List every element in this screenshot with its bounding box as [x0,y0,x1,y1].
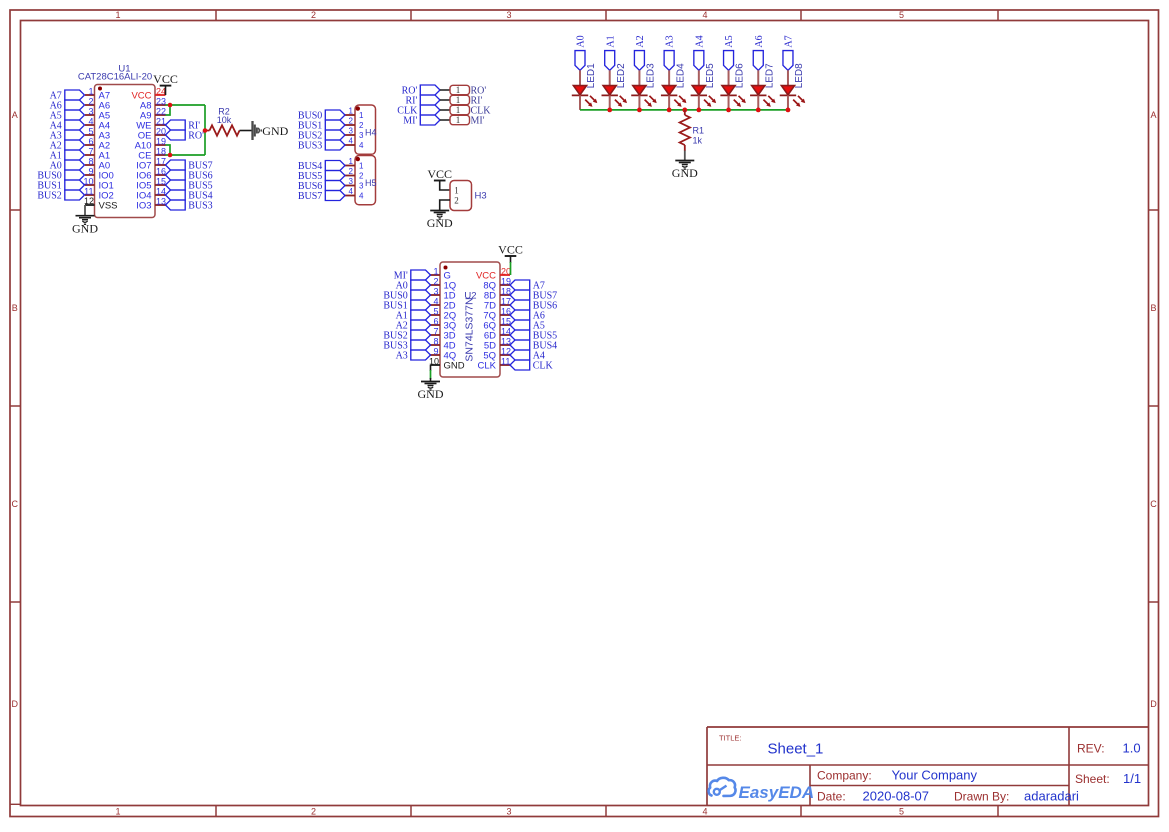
svg-text:A1: A1 [605,35,616,47]
svg-text:10k: 10k [217,115,232,125]
svg-text:5: 5 [899,807,904,817]
svg-text:MI': MI' [403,116,417,127]
svg-text:GND: GND [418,387,444,401]
svg-text:A7: A7 [784,35,795,47]
svg-text:LED3: LED3 [646,63,657,88]
svg-text:MI': MI' [471,116,485,127]
svg-text:1k: 1k [693,135,703,145]
svg-text:GND: GND [72,221,98,235]
svg-text:1: 1 [456,105,461,115]
svg-text:LED6: LED6 [735,63,746,88]
svg-text:LED1: LED1 [586,63,597,88]
svg-text:VSS: VSS [99,201,118,212]
svg-text:1: 1 [454,185,459,195]
svg-text:A6: A6 [754,35,765,47]
svg-text:SN74LS377N: SN74LS377N [464,297,476,361]
svg-text:1: 1 [349,157,354,166]
svg-text:1: 1 [456,85,461,95]
svg-text:A2: A2 [635,35,646,47]
svg-text:C: C [12,499,19,509]
svg-text:22: 22 [156,106,166,116]
svg-text:A5: A5 [724,35,735,47]
svg-text:LED8: LED8 [794,63,805,88]
svg-text:5: 5 [88,126,93,136]
svg-text:14: 14 [156,186,166,196]
svg-text:16: 16 [156,166,166,176]
svg-text:7: 7 [433,326,438,336]
svg-text:3: 3 [359,182,364,191]
svg-text:3: 3 [349,177,354,186]
svg-text:VCC: VCC [153,72,178,86]
svg-text:CAT28C16ALI-20: CAT28C16ALI-20 [78,71,152,82]
svg-text:4: 4 [702,807,707,817]
svg-text:B: B [12,303,18,313]
svg-text:12: 12 [84,196,94,206]
svg-text:A3: A3 [396,351,408,362]
svg-text:Your Company: Your Company [892,768,978,783]
svg-text:2: 2 [433,276,438,286]
svg-text:18: 18 [156,146,166,156]
svg-text:BUS3: BUS3 [188,201,212,212]
svg-text:2020-08-07: 2020-08-07 [863,789,930,804]
svg-text:BUS7: BUS7 [298,191,322,202]
svg-text:9: 9 [88,166,93,176]
svg-text:13: 13 [156,196,166,206]
svg-text:GND: GND [672,166,698,180]
svg-text:7: 7 [88,146,93,156]
svg-text:4: 4 [349,137,354,146]
svg-text:2: 2 [359,172,364,181]
svg-text:B: B [1150,303,1156,313]
svg-text:LED2: LED2 [616,63,627,88]
svg-text:A: A [12,110,18,120]
svg-text:EasyEDA: EasyEDA [739,783,815,802]
svg-text:3: 3 [433,286,438,296]
svg-text:5: 5 [899,10,904,20]
svg-text:Date:: Date: [817,790,846,804]
svg-text:2: 2 [349,167,354,176]
svg-text:2: 2 [311,10,316,20]
svg-text:A4: A4 [694,35,705,47]
svg-text:10: 10 [429,356,439,366]
svg-text:TITLE:: TITLE: [719,734,742,743]
svg-text:6: 6 [88,136,93,146]
svg-text:8: 8 [433,336,438,346]
svg-text:17: 17 [156,156,166,166]
svg-text:3: 3 [506,10,511,20]
svg-text:11: 11 [84,186,93,196]
svg-text:H3: H3 [475,191,487,202]
svg-text:REV:: REV: [1077,742,1105,756]
svg-text:2: 2 [454,195,459,205]
svg-text:H5: H5 [365,178,377,188]
svg-text:3: 3 [359,131,364,140]
svg-text:20: 20 [156,126,166,136]
svg-text:LED5: LED5 [705,63,716,88]
svg-text:A3: A3 [665,35,676,47]
svg-text:adaradari: adaradari [1024,789,1079,804]
svg-text:D: D [12,699,19,709]
svg-text:4: 4 [702,10,707,20]
svg-text:CLK: CLK [533,361,554,372]
svg-text:2: 2 [349,117,354,126]
svg-text:1: 1 [456,95,461,105]
svg-text:C: C [1150,499,1157,509]
svg-text:4: 4 [88,116,93,126]
svg-text:24: 24 [156,86,166,96]
svg-text:GND: GND [427,216,453,230]
svg-text:21: 21 [156,116,166,126]
svg-text:1: 1 [115,807,120,817]
svg-text:BUS2: BUS2 [37,191,61,202]
svg-text:2: 2 [311,807,316,817]
svg-text:GND: GND [444,361,465,372]
svg-text:5: 5 [433,306,438,316]
svg-text:2: 2 [359,121,364,130]
svg-text:LED7: LED7 [764,63,775,88]
svg-text:9: 9 [433,346,438,356]
svg-text:Sheet_1: Sheet_1 [768,741,824,758]
svg-text:1: 1 [359,111,364,120]
svg-text:15: 15 [156,176,166,186]
svg-text:1/1: 1/1 [1123,771,1141,786]
svg-text:BUS3: BUS3 [298,141,322,152]
svg-text:GND: GND [262,124,288,138]
svg-text:23: 23 [156,96,166,106]
svg-text:A0: A0 [576,35,587,47]
svg-text:2: 2 [88,96,93,106]
svg-text:1: 1 [88,86,93,96]
svg-text:19: 19 [156,136,166,146]
svg-text:LED4: LED4 [675,63,686,88]
svg-text:1.0: 1.0 [1123,741,1141,756]
svg-text:11: 11 [501,356,510,366]
svg-text:CLK: CLK [478,361,497,372]
svg-text:RO': RO' [188,131,204,142]
svg-text:VCC: VCC [427,167,452,181]
svg-text:4: 4 [433,296,438,306]
svg-text:1: 1 [456,115,461,125]
svg-text:8: 8 [88,156,93,166]
svg-text:Sheet:: Sheet: [1075,772,1110,786]
svg-text:20: 20 [501,266,511,276]
svg-text:H4: H4 [365,128,377,138]
svg-text:6: 6 [433,316,438,326]
svg-text:R1: R1 [693,125,705,135]
svg-text:D: D [1150,699,1157,709]
svg-text:A: A [1150,110,1156,120]
svg-text:1: 1 [433,266,438,276]
svg-text:3: 3 [88,106,93,116]
svg-text:Drawn By:: Drawn By: [954,790,1009,804]
svg-text:4: 4 [349,187,354,196]
svg-text:1: 1 [115,10,120,20]
svg-text:1: 1 [349,107,354,116]
svg-text:Company:: Company: [817,769,872,783]
svg-text:3: 3 [506,807,511,817]
svg-text:4: 4 [359,192,364,201]
svg-text:3: 3 [349,127,354,136]
svg-text:4: 4 [359,141,364,150]
svg-text:IO3: IO3 [136,201,151,212]
svg-text:VCC: VCC [498,243,523,257]
svg-text:1: 1 [359,162,364,171]
